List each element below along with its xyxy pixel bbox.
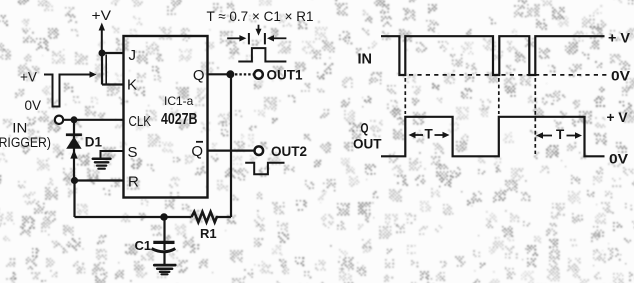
pin Q-bar [191,142,203,160]
junction dot C1 [160,213,168,221]
wire left vertical to bottom rail [73,181,75,218]
ground (S pin) [93,159,111,169]
label IN (TRIGGER) [0,121,51,150]
junction dot CLK/D1 [71,116,78,123]
pulse symbol OUT1 (positive pulse) [238,48,286,61]
op IC1-a 4027B flip-flop body [124,36,208,198]
wire Q to OUT1 (dotted) [235,73,254,75]
wire J-K tie loop [102,53,124,85]
dashed 0V baseline [409,74,607,76]
wire pin Q [208,73,229,75]
T width annotation 2 [536,127,582,142]
junction dot R/D1 [71,177,78,184]
terminal OUT1 [254,70,263,79]
wire CLK [64,119,124,121]
trigger input waveform annotation [20,70,97,114]
pulse-width measure arrows [227,25,286,45]
diode D1 [66,120,82,181]
waveform IN trace [381,36,605,75]
power +V (top supply) [92,8,112,53]
terminal IN (trigger input) [55,116,63,124]
pulse symbol OUT2 (negative pulse) [245,163,284,175]
dashed vertical sync line 3 [534,78,536,154]
wire Q feedback vertical [230,74,232,217]
wire bottom rail [75,216,232,218]
dashed vertical sync line 2 [498,78,500,114]
resistor R1 [192,212,219,222]
dashed vertical sync line 1 [404,78,406,114]
junction dot +V/J [99,50,106,57]
junction dot Q [226,70,234,78]
wire +V to pin J [102,52,124,54]
wire pin R [75,179,124,181]
label Q OUT [353,120,382,152]
waveform Q OUT trace [381,117,605,157]
terminal OUT2 [254,146,263,155]
T width annotation 1 [409,127,450,142]
capacitor C1 [152,217,176,264]
ground (C1) [154,265,175,274]
wire pin Q-bar to OUT2 [208,150,255,152]
wire pin S to ground [101,151,124,158]
